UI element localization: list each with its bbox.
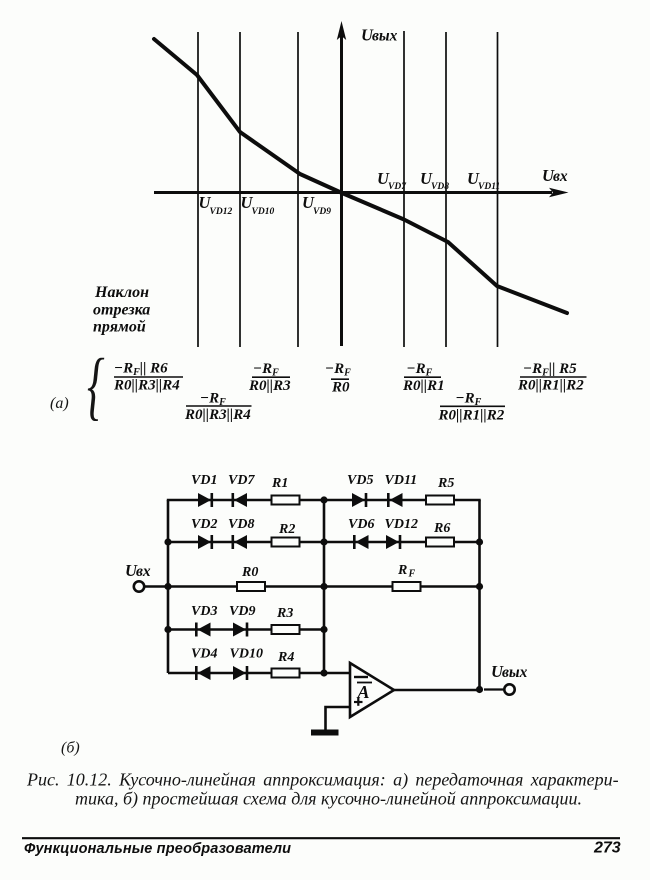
svg-text:−RF|| R5: −RF|| R5: [523, 361, 577, 379]
svg-text:R1: R1: [271, 476, 288, 491]
svg-text:R0||R3||R4: R0||R3||R4: [113, 378, 180, 394]
svg-text:Рис. 10.12. Кусочно-линейная а: Рис. 10.12. Кусочно-линейная аппроксимац…: [26, 770, 619, 791]
svg-text:тика, б) простейшая схема для: тика, б) простейшая схема для кусочно-ли…: [75, 789, 582, 810]
svg-text:−RF: −RF: [325, 361, 351, 379]
svg-text:вх: вх: [553, 168, 568, 185]
svg-text:прямой: прямой: [93, 319, 146, 336]
svg-text:F: F: [408, 569, 416, 580]
svg-text:VD12: VD12: [385, 517, 418, 532]
svg-text:R0||R1: R0||R1: [402, 378, 445, 394]
svg-text:273: 273: [593, 840, 621, 857]
svg-text:R3: R3: [276, 606, 293, 621]
svg-text:VD2: VD2: [191, 517, 217, 532]
svg-text:R0: R0: [241, 565, 258, 580]
svg-text:R0||R3: R0||R3: [248, 378, 291, 394]
svg-text:вых: вых: [502, 664, 528, 681]
svg-text:отрезка: отрезка: [93, 302, 150, 319]
svg-text:VD11: VD11: [478, 182, 500, 192]
svg-text:R: R: [397, 563, 407, 578]
svg-text:вых: вых: [372, 28, 398, 45]
svg-text:VD9: VD9: [229, 604, 255, 619]
svg-text:VD8: VD8: [228, 517, 254, 532]
svg-text:−RF|| R6: −RF|| R6: [114, 361, 168, 379]
svg-text:VD12: VD12: [210, 207, 233, 217]
svg-text:вх: вх: [136, 563, 151, 580]
svg-text:VD4: VD4: [191, 647, 217, 662]
svg-text:VD5: VD5: [347, 473, 373, 488]
svg-text:(а): (а): [50, 395, 69, 412]
svg-text:VD9: VD9: [313, 207, 331, 217]
svg-text:VD8: VD8: [431, 182, 449, 192]
svg-text:R4: R4: [277, 650, 294, 665]
svg-text:Функциональные преобразователи: Функциональные преобразователи: [24, 841, 291, 857]
svg-text:R0||R3||R4: R0||R3||R4: [184, 407, 251, 423]
svg-text:R0: R0: [331, 380, 350, 396]
svg-text:R5: R5: [437, 476, 454, 491]
svg-text:VD11: VD11: [385, 473, 418, 488]
svg-text:VD10: VD10: [230, 647, 263, 662]
svg-text:VD1: VD1: [191, 473, 217, 488]
svg-text:R6: R6: [433, 521, 450, 536]
svg-text:R0||R1||R2: R0||R1||R2: [438, 408, 505, 424]
svg-text:VD7: VD7: [228, 473, 255, 488]
svg-text:R0||R1||R2: R0||R1||R2: [517, 378, 584, 394]
svg-text:−RF: −RF: [253, 361, 279, 379]
svg-text:VD3: VD3: [191, 604, 217, 619]
svg-text:{: {: [87, 345, 105, 428]
svg-text:−RF: −RF: [456, 391, 482, 409]
svg-text:−RF: −RF: [407, 361, 433, 379]
svg-text:R2: R2: [278, 522, 295, 537]
svg-text:VD10: VD10: [252, 207, 275, 217]
svg-text:(б): (б): [61, 740, 80, 757]
svg-text:VD6: VD6: [348, 517, 374, 532]
svg-text:Наклон: Наклон: [94, 284, 149, 301]
svg-text:VD7: VD7: [388, 182, 407, 192]
